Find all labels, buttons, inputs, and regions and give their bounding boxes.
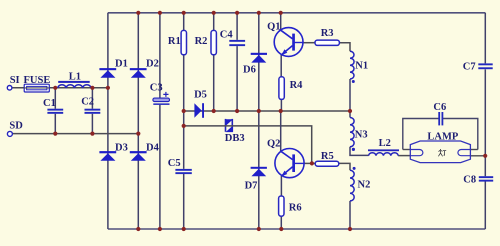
svg-text:D1: D1 xyxy=(115,59,128,70)
svg-text:D7: D7 xyxy=(245,180,258,191)
capacitor C4 xyxy=(229,40,245,46)
svg-text:C1: C1 xyxy=(43,98,56,109)
junction dots midpoint line xyxy=(182,109,353,113)
wire Q2 base to R5 xyxy=(304,162,316,164)
wire SD input xyxy=(12,133,138,135)
svg-text:D5: D5 xyxy=(194,90,207,101)
junction dots bottom rail xyxy=(136,227,352,231)
wire C4 line xyxy=(236,13,238,111)
svg-text:C5: C5 xyxy=(168,158,181,169)
wire right bus xyxy=(484,13,486,229)
capacitor C7 xyxy=(478,63,492,69)
inductor N2 xyxy=(350,170,354,201)
wire N3 to L2 xyxy=(350,147,369,156)
svg-text:L2: L2 xyxy=(379,138,391,149)
svg-text:LAMP: LAMP xyxy=(427,132,458,143)
svg-text:D4: D4 xyxy=(146,143,160,154)
resistor R4 xyxy=(279,77,284,100)
svg-text:C3: C3 xyxy=(150,83,163,94)
junction dot lamp right xyxy=(483,154,487,158)
terminal SD xyxy=(7,131,12,136)
inductor N3 xyxy=(350,118,354,147)
junction dot DB3 line xyxy=(182,124,186,128)
svg-text:FUSE: FUSE xyxy=(24,75,51,86)
resistor R6 xyxy=(279,196,284,216)
svg-text:Q2: Q2 xyxy=(267,138,280,149)
wire Q2 collector from midpoint xyxy=(280,111,282,151)
wire D5 midpoint line xyxy=(184,110,350,112)
wire N2 to bottom rail xyxy=(349,201,351,229)
junction dots SI wire xyxy=(53,86,110,90)
wire midpoint to N3 xyxy=(349,111,351,118)
wire R5 to N2 xyxy=(339,163,350,170)
svg-text:R6: R6 xyxy=(289,203,302,214)
svg-text:D6: D6 xyxy=(243,64,256,75)
svg-text:Q1: Q1 xyxy=(267,21,280,32)
diode D4 xyxy=(130,151,147,161)
wire L2 to lamp xyxy=(398,155,410,157)
inductor L2 xyxy=(368,149,399,155)
wire N1 bottom to midpoint xyxy=(349,79,351,111)
terminal SI xyxy=(7,86,12,91)
wire lamp top-left lead xyxy=(403,149,411,151)
svg-text:SD: SD xyxy=(9,120,23,131)
inductor L1 xyxy=(58,81,91,88)
svg-text:N1: N1 xyxy=(355,60,368,71)
svg-text:L1: L1 xyxy=(69,72,81,83)
diode D2 xyxy=(130,68,147,78)
wire Q1 emitter to R4 to midpoint xyxy=(280,54,282,111)
svg-text:N3: N3 xyxy=(355,130,368,141)
resistor R5 xyxy=(315,161,339,166)
resistor R3 xyxy=(315,40,339,45)
diac DB3 xyxy=(225,119,233,132)
svg-text:R3: R3 xyxy=(321,28,334,39)
wire Q1 base to R3 xyxy=(303,42,315,44)
wire R3 to N1 xyxy=(339,43,350,52)
wire Q2 emitter to R6 to bottom rail xyxy=(280,176,282,229)
wire top rail xyxy=(108,12,485,14)
N1 polarity dot xyxy=(352,80,355,83)
svg-text:D2: D2 xyxy=(146,59,159,70)
svg-text:SI: SI xyxy=(10,75,20,86)
svg-text:C2: C2 xyxy=(81,97,94,108)
svg-text:C7: C7 xyxy=(463,61,476,72)
diode D6 xyxy=(251,53,267,63)
N2 polarity dot xyxy=(353,167,356,170)
capacitor C1 xyxy=(47,109,63,114)
electrolytic capacitor C3 xyxy=(153,92,170,105)
wire D6 D7 line xyxy=(258,13,260,229)
lamp left filament xyxy=(410,150,423,156)
lamp outline xyxy=(410,141,470,163)
svg-text:R1: R1 xyxy=(168,36,181,47)
wire lamp top-right lead xyxy=(470,149,477,151)
wire C2 line xyxy=(91,88,93,134)
resistor R1 xyxy=(181,30,186,54)
resistor R2 xyxy=(211,30,216,54)
transistor Q1 xyxy=(274,28,303,57)
lamp right filament xyxy=(458,150,470,156)
capacitor C8 xyxy=(479,176,493,181)
svg-text:N2: N2 xyxy=(358,180,371,191)
wire DB3 line to Q2 base xyxy=(184,126,312,163)
junction dots top rail xyxy=(136,11,283,15)
wire R2 line xyxy=(213,13,215,111)
inductor N1 xyxy=(350,51,354,79)
wire C3 line xyxy=(159,13,161,229)
svg-text:R5: R5 xyxy=(321,151,334,162)
svg-text:C8: C8 xyxy=(463,175,476,186)
junction dots SD wire xyxy=(53,132,140,136)
wire C1 line xyxy=(54,88,56,134)
svg-text:R4: R4 xyxy=(290,80,304,91)
N3 polarity dot xyxy=(352,148,355,151)
svg-text:DB3: DB3 xyxy=(225,133,245,144)
fuse FUSE xyxy=(24,84,49,92)
diode D3 xyxy=(99,151,116,161)
svg-text:D3: D3 xyxy=(115,143,128,154)
wire R1 C5 line xyxy=(183,13,185,229)
wire SI input xyxy=(12,87,108,89)
wire bridge left line D1 D3 xyxy=(107,13,109,229)
wire lamp bottom-right lead to bus xyxy=(470,155,485,157)
diode D7 xyxy=(251,167,267,176)
svg-text:C6: C6 xyxy=(433,102,446,113)
svg-text:R2: R2 xyxy=(195,36,208,47)
wire bottom rail xyxy=(108,228,485,230)
wire Q1 collector xyxy=(280,13,282,31)
transistor Q2 xyxy=(275,149,304,178)
lamp glyph xyxy=(438,149,446,156)
junction dot Q2 base xyxy=(310,161,314,165)
diode D5 xyxy=(194,103,204,118)
capacitor C5 xyxy=(175,169,191,174)
svg-text:C4: C4 xyxy=(220,30,234,41)
diode D1 xyxy=(99,68,116,78)
wire C6 loop xyxy=(403,119,478,150)
capacitor C6 xyxy=(438,112,443,125)
wire bridge right line D2 D4 xyxy=(137,13,139,229)
capacitor C2 xyxy=(85,109,101,114)
